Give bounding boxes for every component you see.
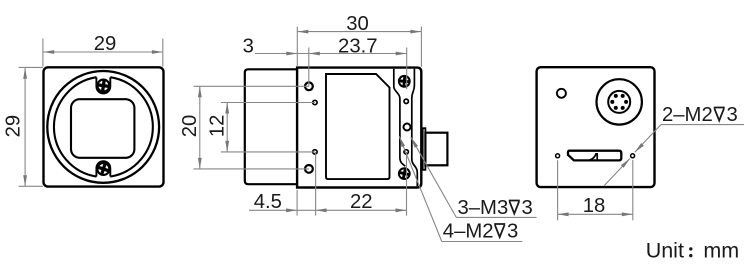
bottom screw bracket: [96, 161, 110, 176]
back view body square: [537, 67, 655, 187]
dimension 12 extension lines: [221, 102, 315, 104]
front lens mount outer circle: [47, 71, 159, 183]
svg-text:4–M2: 4–M2: [443, 220, 494, 242]
screw side bottom: [399, 168, 410, 179]
dimension 30 extension lines: [296, 27, 298, 67]
side view lens flange: [245, 69, 297, 184]
svg-text:30: 30: [346, 13, 369, 35]
dimension 23.7 extension lines: [308, 48, 310, 87]
hole M3 side right middle: [404, 124, 411, 131]
svg-text:12: 12: [206, 115, 228, 138]
back usb slot bump: [590, 154, 598, 160]
dimension 29 left extension lines: [19, 66, 43, 68]
svg-text:3–M3: 3–M3: [458, 197, 509, 219]
leader 3-M3: [411, 137, 456, 217]
side view main body: [297, 68, 421, 188]
svg-text:29: 29: [94, 33, 117, 55]
svg-text:29: 29: [3, 115, 25, 138]
hole M2 side left upper: [313, 100, 317, 104]
front view body square: [44, 67, 164, 186]
svg-text:mm: mm: [703, 238, 739, 262]
dimension 20 extension lines: [194, 85, 309, 87]
side label plate with chamfer: [326, 74, 390, 179]
svg-text:4.5: 4.5: [254, 191, 282, 213]
hole M2 side right upper: [404, 99, 408, 103]
dimension 29 top extension lines: [42, 39, 44, 67]
svg-text:18: 18: [583, 195, 606, 217]
front lens mount inner circle: [54, 77, 153, 176]
back connector inner circle: [608, 91, 630, 113]
dimension 4.5 extension line: [296, 190, 298, 216]
svg-text:3: 3: [522, 197, 533, 219]
side groove contour right: [412, 69, 418, 186]
svg-text:20: 20: [179, 115, 201, 138]
connector collar side: [423, 128, 426, 170]
dimension 29 left line: [24, 68, 26, 186]
svg-text:3: 3: [727, 104, 738, 126]
top screw bracket: [96, 77, 110, 93]
back usb slot: [568, 151, 621, 161]
leader 4-M2: [399, 136, 442, 241]
dimension 22 extension lines: [315, 152, 317, 216]
svg-text:22: 22: [350, 191, 373, 213]
dimension 29 top line: [43, 51, 163, 53]
dimension 4.5 and 22 line: [249, 209, 407, 211]
svg-text:Unit: Unit: [646, 238, 684, 262]
back connector outer circle: [597, 79, 642, 124]
dimension 30 line: [297, 31, 421, 33]
back hole bottom right: [631, 154, 635, 158]
svg-text:3: 3: [243, 35, 254, 57]
dimension 20 line: [199, 86, 201, 169]
hole M3 side left top: [305, 82, 313, 90]
hole M2 side left lower: [313, 150, 317, 154]
svg-text:3: 3: [507, 220, 518, 242]
svg-text:2–M2: 2–M2: [662, 104, 713, 126]
screw side top: [399, 76, 410, 87]
screw front top: [97, 80, 109, 92]
dimension 18 line: [558, 213, 633, 215]
dimension 3 and 23.7 line: [255, 53, 407, 55]
back small hole top left: [557, 89, 566, 98]
back hole bottom left: [556, 154, 560, 158]
side groove contour left: [394, 69, 406, 166]
hole M3 side left bottom: [305, 165, 313, 173]
connector body side: [425, 133, 447, 166]
leader 2-M2: [635, 125, 661, 153]
front sensor window: [71, 99, 134, 158]
dimension 18 extension lines: [557, 160, 559, 220]
hole M2 side right lower: [404, 150, 408, 154]
back connector pins: [610, 94, 628, 110]
svg-text:23.7: 23.7: [338, 35, 377, 57]
screw front bottom: [97, 162, 111, 176]
dimension 12 line: [226, 103, 228, 152]
